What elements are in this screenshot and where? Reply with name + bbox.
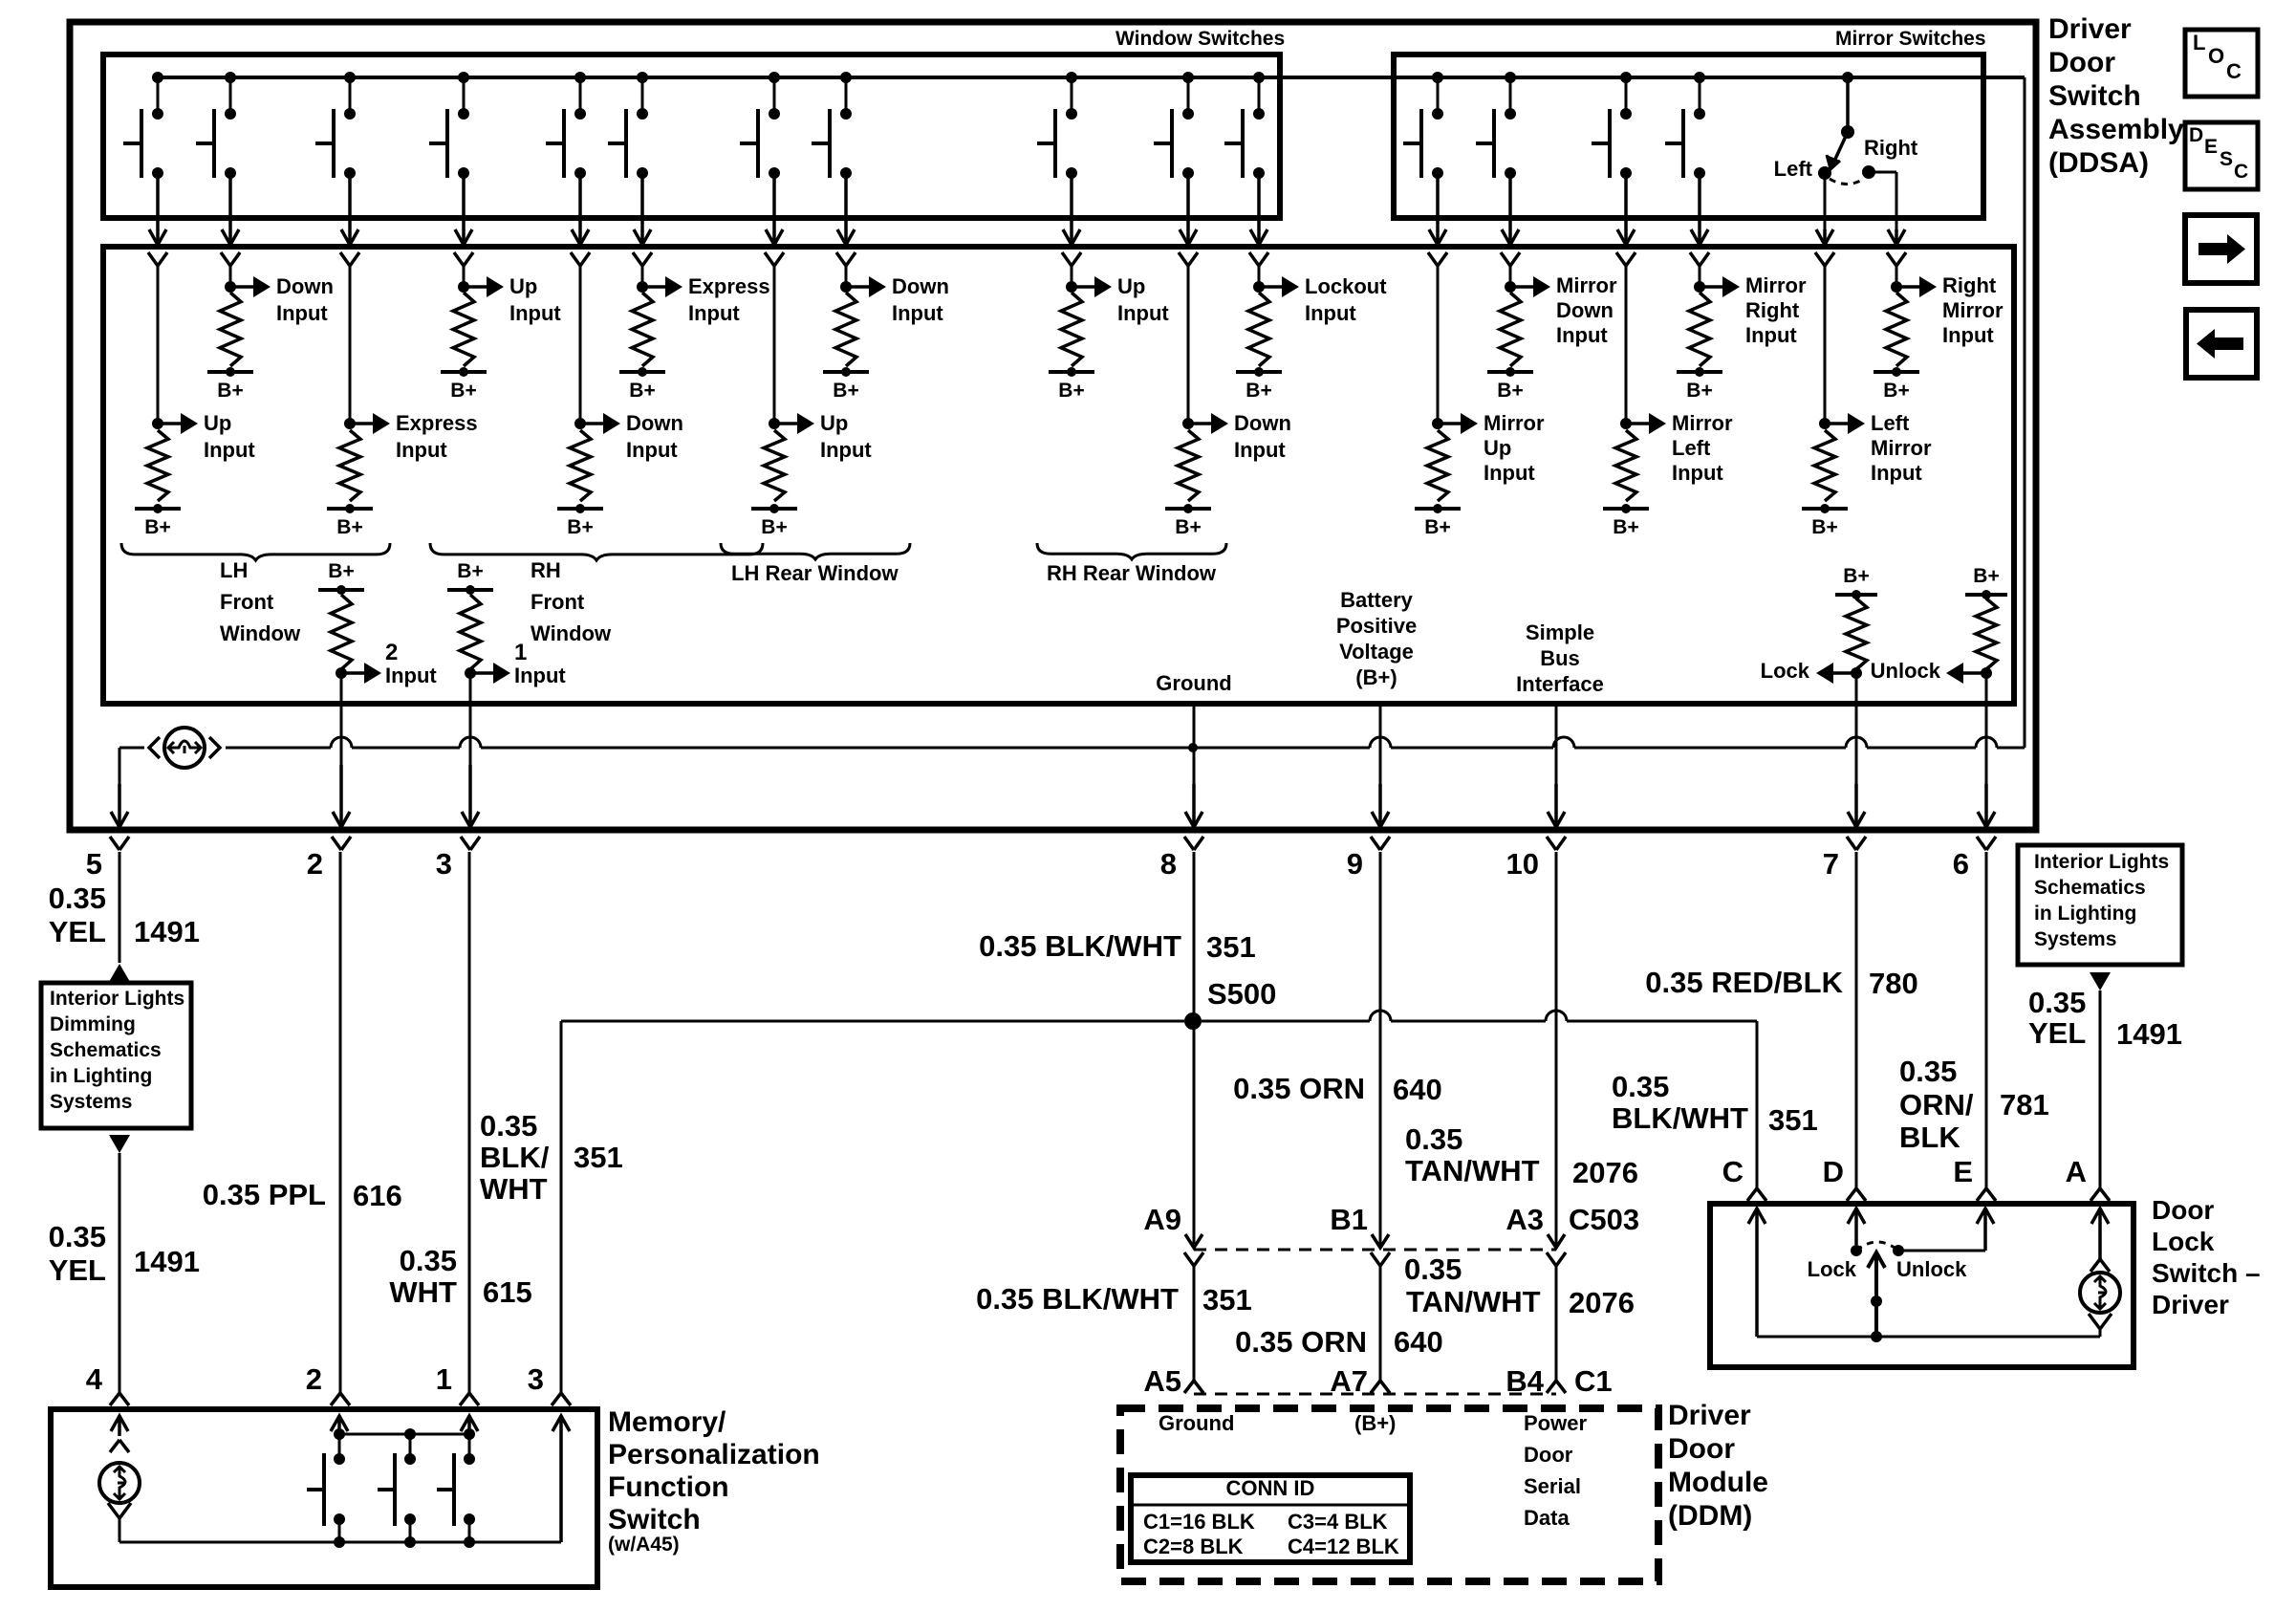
wire: pin 7 to door lock switch D (circuit 780) xyxy=(1645,852,1917,1201)
wire: illumination feed across assembly (y=782) xyxy=(119,737,2025,826)
input arrow: Express Input xyxy=(354,411,478,462)
svg-text:Switch: Switch xyxy=(2048,80,2141,112)
svg-text:10: 10 xyxy=(1506,847,1539,881)
svg-text:C1=16 BLK: C1=16 BLK xyxy=(1143,1510,1255,1534)
svg-text:Input: Input xyxy=(1942,323,1994,347)
svg-text:Up: Up xyxy=(509,274,537,298)
brace: LH Rear Window group xyxy=(721,543,910,585)
svg-text:6: 6 xyxy=(1953,847,1969,881)
svg-text:Mirror: Mirror xyxy=(1871,436,1932,460)
resistor R7 xyxy=(764,430,785,501)
resistor R18 xyxy=(331,595,352,669)
svg-text:Serial: Serial xyxy=(1524,1474,1581,1498)
svg-text:C: C xyxy=(1722,1155,1744,1188)
svg-text:Mirror: Mirror xyxy=(1942,298,2004,322)
connector designator C1 xyxy=(1574,1364,1613,1398)
wire: switch S9 output to resistor network xyxy=(1062,173,1081,266)
resistor R12 xyxy=(1427,430,1448,501)
pushbutton switch S4 RH front window up xyxy=(429,72,469,179)
box: Interior Lights Dimming Schematics in Lighting Systems xyxy=(41,983,191,1128)
svg-text:B4: B4 xyxy=(1505,1364,1544,1398)
connector pin A9 xyxy=(1143,1203,1203,1266)
svg-text:B+: B+ xyxy=(833,380,858,402)
wire: column x=1580 to input node xyxy=(1505,266,1516,293)
B+ terminal of R2 xyxy=(207,367,253,402)
component box: Door Lock Switch - Driver xyxy=(1710,1204,2134,1367)
wire: switch S8 output to resistor network xyxy=(836,173,856,266)
right-arrow navigation box xyxy=(2185,215,2257,283)
svg-text:8: 8 xyxy=(1160,847,1177,881)
wire: column x=1778 to input node xyxy=(1694,266,1705,293)
input arrow: Up Input xyxy=(778,411,872,462)
svg-text:YEL: YEL xyxy=(49,1253,106,1287)
resistor R17 xyxy=(1886,293,1907,366)
wire: lock node to pin 7 xyxy=(1847,673,1866,850)
wire: switch S1 output to resistor network xyxy=(148,173,167,266)
svg-text:Up: Up xyxy=(820,411,848,435)
B+ terminal of R4 xyxy=(441,367,487,402)
wire: R19 node down to pin 3 xyxy=(461,673,480,850)
label: Battery Positive Voltage (B+) port xyxy=(1336,588,1417,689)
pin 10 of DDSA xyxy=(1506,847,1539,881)
svg-text:B+: B+ xyxy=(217,380,243,402)
resistor R6 xyxy=(632,293,653,366)
svg-text:Input: Input xyxy=(820,438,872,462)
wire: column x=1909 to input node xyxy=(1819,266,1830,429)
pushbutton switch S18 memory 2 xyxy=(378,1434,416,1542)
svg-text:B+: B+ xyxy=(1811,516,1837,538)
wire: column x=165 to input node xyxy=(152,266,163,429)
input arrow: Down Input xyxy=(584,411,683,462)
wire: pin 9 battery feed to DDM B1 (circuit 640) xyxy=(1233,852,1442,1248)
svg-text:Input: Input xyxy=(1556,323,1608,347)
wire: pin 6 to door lock switch E (circuit 781) xyxy=(1899,852,2049,1201)
svg-text:B+: B+ xyxy=(457,560,483,582)
svg-text:B+: B+ xyxy=(1175,516,1201,538)
svg-text:Input: Input xyxy=(688,301,740,325)
svg-text:351: 351 xyxy=(574,1141,623,1174)
svg-text:2076: 2076 xyxy=(1572,1156,1638,1189)
connector pin B1 xyxy=(1330,1203,1390,1266)
svg-text:Mirror: Mirror xyxy=(1556,273,1617,297)
svg-text:Window: Window xyxy=(220,621,301,645)
svg-text:351: 351 xyxy=(1202,1283,1252,1317)
svg-text:Front: Front xyxy=(531,590,585,614)
label: Mirror Switches xyxy=(1835,28,1986,50)
svg-text:in Lighting: in Lighting xyxy=(2034,903,2136,925)
wire: switch S14 output to resistor network xyxy=(1616,173,1635,266)
svg-text:ORN/: ORN/ xyxy=(1899,1088,1974,1121)
wire: column x=241 to input node xyxy=(225,266,236,293)
box: Interior Lights Schematics in Lighting Systems xyxy=(2018,845,2182,965)
svg-text:Memory/: Memory/ xyxy=(608,1406,726,1438)
svg-text:Ground: Ground xyxy=(1159,1411,1234,1435)
wire: switch S11 output to resistor network xyxy=(1249,173,1268,266)
resistor R4 xyxy=(453,293,474,366)
svg-text:Lock: Lock xyxy=(1808,1257,1857,1281)
svg-text:1491: 1491 xyxy=(134,915,200,948)
wire: memory switch pin 3 entry down to common bus xyxy=(552,1416,570,1542)
svg-text:Dimming: Dimming xyxy=(50,1013,136,1035)
svg-text:615: 615 xyxy=(483,1275,532,1309)
memory switch pin 2 xyxy=(306,1362,322,1396)
svg-text:0.35: 0.35 xyxy=(1404,1252,1462,1286)
svg-text:0.35 ORN: 0.35 ORN xyxy=(1233,1072,1365,1105)
svg-text:(B+): (B+) xyxy=(1354,1411,1396,1435)
svg-text:0.35: 0.35 xyxy=(1405,1122,1462,1156)
wire: pin 5 circuit 1491 to interior lights dimming xyxy=(49,852,200,963)
door lock switch pin A label xyxy=(2066,1155,2087,1188)
svg-text:Driver: Driver xyxy=(2152,1290,2229,1319)
svg-text:B+: B+ xyxy=(567,516,593,538)
svg-text:Data: Data xyxy=(1524,1506,1570,1530)
svg-text:Down: Down xyxy=(626,411,683,435)
svg-text:B+: B+ xyxy=(450,380,476,402)
svg-text:Down: Down xyxy=(1556,298,1614,322)
node: ground junction on illumination line xyxy=(1188,743,1198,752)
pushbutton switch S14 mirror left xyxy=(1592,72,1632,179)
pushbutton switch S11 window lockout xyxy=(1224,72,1265,179)
label: Driver Door Module (DDM) xyxy=(1668,1400,1768,1532)
svg-text:A3: A3 xyxy=(1505,1203,1544,1236)
wire: switch S6 output to resistor network xyxy=(633,173,652,266)
svg-text:0.35: 0.35 xyxy=(1612,1070,1669,1103)
svg-text:0.35 BLK/WHT: 0.35 BLK/WHT xyxy=(979,929,1181,963)
svg-text:Positive: Positive xyxy=(1336,614,1417,638)
svg-text:0.35 BLK/WHT: 0.35 BLK/WHT xyxy=(976,1282,1179,1316)
svg-text:2: 2 xyxy=(307,847,323,881)
CONN ID table xyxy=(1131,1475,1410,1562)
svg-text:Systems: Systems xyxy=(2034,928,2116,950)
wire: column x=1504 to input node xyxy=(1432,266,1443,429)
B+ terminal of R12 xyxy=(1415,504,1461,538)
svg-text:S: S xyxy=(2220,148,2233,170)
svg-text:780: 780 xyxy=(1869,967,1918,1000)
svg-text:RH: RH xyxy=(531,558,561,582)
svg-text:Up: Up xyxy=(204,411,231,435)
door lock switch pin C label xyxy=(1722,1155,1744,1188)
pushbutton switch S13 mirror down xyxy=(1476,72,1516,179)
pin 6 of DDSA xyxy=(1953,847,1969,881)
brace: RH Rear Window group xyxy=(1037,543,1226,585)
svg-text:in Lighting: in Lighting xyxy=(50,1065,152,1087)
wire: S500 ground branch (y=1070) xyxy=(561,1011,1757,1021)
svg-text:640: 640 xyxy=(1394,1325,1443,1359)
svg-text:C: C xyxy=(2226,59,2242,83)
wire: R18 node down to pin 2 xyxy=(332,673,351,850)
B+ terminal of R3 xyxy=(327,504,373,538)
svg-text:3: 3 xyxy=(528,1362,544,1396)
wire: DLS pin D entry to lock contact xyxy=(1848,1208,1865,1256)
svg-text:Window Switches: Window Switches xyxy=(1116,28,1285,50)
svg-text:Left: Left xyxy=(1774,157,1813,181)
svg-text:Front: Front xyxy=(220,590,274,614)
wire: column x=485 to input node xyxy=(458,266,469,293)
svg-text:B+: B+ xyxy=(1973,565,1999,587)
DDM port label (B+) xyxy=(1354,1411,1396,1435)
input arrow: Lock xyxy=(1761,659,1862,684)
wire: selector right contact to resistor network xyxy=(1887,172,1906,266)
resistor R21 unlock xyxy=(1976,599,1997,669)
resistor R20 lock xyxy=(1846,599,1867,669)
wire: switch S10 output to resistor network xyxy=(1179,173,1198,266)
svg-text:0.35 PPL: 0.35 PPL xyxy=(203,1178,326,1211)
svg-text:351: 351 xyxy=(1768,1103,1818,1137)
svg-text:B+: B+ xyxy=(761,516,787,538)
wire: memory switch internal bottom bus xyxy=(119,1536,561,1548)
label: Memory/Personalization Function Switch (w/A45) xyxy=(608,1406,820,1556)
svg-text:351: 351 xyxy=(1206,930,1256,964)
svg-text:Input: Input xyxy=(385,664,437,687)
svg-text:Input: Input xyxy=(626,438,678,462)
svg-text:B+: B+ xyxy=(629,380,655,402)
svg-text:Input: Input xyxy=(1305,301,1356,325)
svg-text:Unlock: Unlock xyxy=(1896,1257,1967,1281)
svg-text:A: A xyxy=(2066,1155,2087,1188)
svg-text:Input: Input xyxy=(204,438,255,462)
svg-text:Door: Door xyxy=(1524,1443,1573,1467)
svg-text:Input: Input xyxy=(1871,461,1922,485)
svg-text:B+: B+ xyxy=(1058,380,1084,402)
svg-text:1: 1 xyxy=(436,1362,452,1396)
B+ terminal of R13 xyxy=(1487,367,1533,402)
svg-text:Mirror: Mirror xyxy=(1672,411,1733,435)
svg-text:B+: B+ xyxy=(328,560,354,582)
svg-text:0.35 ORN: 0.35 ORN xyxy=(1235,1325,1367,1359)
svg-text:D: D xyxy=(1823,1155,1844,1188)
svg-text:0.35: 0.35 xyxy=(49,1220,106,1253)
svg-text:0.35: 0.35 xyxy=(1899,1055,1957,1088)
svg-text:Down: Down xyxy=(892,274,949,298)
svg-text:Personalization: Personalization xyxy=(608,1439,820,1470)
svg-text:Up: Up xyxy=(1117,274,1145,298)
svg-text:Mirror: Mirror xyxy=(1484,411,1545,435)
wire: column x=885 to input node xyxy=(840,266,852,293)
resistor R9 xyxy=(1061,293,1082,366)
label: Door Lock Switch - Driver xyxy=(2152,1195,2261,1319)
pushbutton switch S15 mirror right xyxy=(1665,72,1705,179)
svg-text:B+: B+ xyxy=(1424,516,1450,538)
resistor R10 xyxy=(1178,430,1199,501)
resistor R5 xyxy=(570,430,591,501)
wire: DLS pin E entry to unlock contact xyxy=(1893,1208,1994,1256)
resistor R1 xyxy=(147,430,168,501)
wire: A9 to A5 segment (circuit 351) xyxy=(976,1266,1252,1393)
wire: switch S15 output to resistor network xyxy=(1690,173,1709,266)
svg-text:Express: Express xyxy=(396,411,478,435)
input arrow: Left Mirror Input xyxy=(1829,411,1932,485)
B+ terminal of R8 xyxy=(823,367,869,402)
svg-text:B+: B+ xyxy=(1883,380,1909,402)
input arrow: Mirror Up Input xyxy=(1441,411,1545,485)
B+ terminal of R7 xyxy=(751,504,797,538)
svg-text:(B+): (B+) xyxy=(1355,665,1397,689)
input arrow: Up Input xyxy=(1075,274,1169,325)
wire: pin 8 ground to DDM A9 xyxy=(979,852,1256,1248)
svg-text:(DDSA): (DDSA) xyxy=(2048,147,2149,179)
resistor R11 xyxy=(1248,293,1269,366)
svg-text:E: E xyxy=(2204,136,2218,158)
B+ terminal of R20 (lock) xyxy=(1835,565,1877,599)
svg-text:E: E xyxy=(1953,1155,1973,1188)
svg-text:Lock: Lock xyxy=(1761,659,1810,683)
box: Window Switches xyxy=(103,54,1280,218)
off-page arrow to dimming schematics xyxy=(109,964,130,982)
box: Mirror Switches xyxy=(1394,54,1983,218)
wire: switch supply bus (top) xyxy=(158,77,2025,748)
svg-text:0.35 RED/BLK: 0.35 RED/BLK xyxy=(1645,966,1843,999)
svg-text:C2=8 BLK: C2=8 BLK xyxy=(1143,1535,1244,1558)
wire: memory switch pin 1 entry xyxy=(461,1416,478,1434)
wire: column x=672 to input node xyxy=(637,266,648,293)
svg-text:Lock: Lock xyxy=(2152,1227,2215,1256)
pushbutton switch S3 LH front window express xyxy=(315,72,356,179)
pushbutton switch S7 LH rear window up xyxy=(740,72,780,179)
svg-text:Driver: Driver xyxy=(2048,13,2132,45)
label: Simple Bus Interface port xyxy=(1516,620,1604,696)
input arrow: Unlock xyxy=(1871,659,1992,684)
wire: DLS internal common bus xyxy=(1757,1331,2100,1342)
memory switch pin 4 xyxy=(86,1362,103,1396)
off-page arrow from dimming schematics xyxy=(109,1135,130,1153)
door lock switch pin D label xyxy=(1823,1155,1844,1188)
input arrow: Down Input xyxy=(234,274,334,325)
svg-text:Voltage: Voltage xyxy=(1339,640,1414,664)
pushbutton switch S17 memory 1 xyxy=(307,1434,345,1542)
memory switch pin 1 xyxy=(436,1362,452,1396)
svg-text:2: 2 xyxy=(385,640,398,665)
module box: Driver Door Module (DDM) xyxy=(1120,1408,1658,1581)
wire: serial bus port to pin 10 xyxy=(1547,704,1566,850)
svg-text:Mirror Switches: Mirror Switches xyxy=(1835,28,1986,50)
wire: DLS pin C entry down to common xyxy=(1748,1208,1765,1337)
wire: switch S2 output to resistor network xyxy=(221,173,240,266)
svg-text:Input: Input xyxy=(514,664,566,687)
svg-text:781: 781 xyxy=(2000,1088,2049,1121)
B+ terminal of R6 xyxy=(619,367,665,402)
svg-text:Ground: Ground xyxy=(1156,671,1231,695)
svg-text:Left: Left xyxy=(1672,436,1711,460)
input arrow: Down Input xyxy=(850,274,949,325)
svg-text:Simple: Simple xyxy=(1526,620,1594,644)
wire: memory switch internal top bus xyxy=(334,1428,475,1440)
pushbutton switch S19 memory 3 xyxy=(437,1434,475,1542)
svg-text:Door: Door xyxy=(2152,1195,2214,1225)
wire: switch S13 output to resistor network xyxy=(1501,173,1520,266)
svg-text:Input: Input xyxy=(509,301,561,325)
wire: column x=1984 to input node xyxy=(1891,266,1902,293)
wire: column x=1243 to input node xyxy=(1182,266,1194,429)
svg-text:Schematics: Schematics xyxy=(50,1039,162,1061)
svg-text:Interior Lights: Interior Lights xyxy=(2034,851,2169,873)
svg-text:616: 616 xyxy=(353,1179,402,1212)
resistor R16 xyxy=(1814,430,1835,501)
svg-text:Module: Module xyxy=(1668,1467,1768,1498)
svg-text:Right: Right xyxy=(1942,273,1997,297)
svg-text:Interior Lights: Interior Lights xyxy=(50,988,184,1010)
svg-text:WHT: WHT xyxy=(480,1172,548,1206)
svg-text:YEL: YEL xyxy=(2028,1016,2086,1050)
svg-text:(w/A45): (w/A45) xyxy=(608,1534,680,1556)
pushbutton switch S9 RH rear window up xyxy=(1037,72,1077,179)
svg-text:7: 7 xyxy=(1823,847,1839,881)
B+ terminal of R11 xyxy=(1236,367,1282,402)
resistor R19 xyxy=(460,595,481,669)
wire: switch S4 output to resistor network xyxy=(454,173,473,266)
B+ terminal of R17 xyxy=(1874,367,1919,402)
svg-text:Schematics: Schematics xyxy=(2034,877,2146,899)
wire: memory switch pin 4 entry xyxy=(111,1416,128,1436)
svg-text:Systems: Systems xyxy=(50,1091,132,1113)
pin 2 of DDSA xyxy=(307,847,323,881)
wire: pin 2 circuit 616 to memory switch pin 2 xyxy=(203,852,402,1405)
pin 7 of DDSA xyxy=(1823,847,1839,881)
svg-text:TAN/WHT: TAN/WHT xyxy=(1406,1285,1541,1318)
input arrow: Lockout Input xyxy=(1263,274,1387,325)
svg-text:0.35: 0.35 xyxy=(480,1109,537,1143)
pushbutton switch S5 RH front window down xyxy=(546,72,586,179)
svg-text:C1: C1 xyxy=(1574,1364,1613,1398)
svg-text:4: 4 xyxy=(86,1362,103,1396)
svg-text:C503: C503 xyxy=(1569,1203,1639,1236)
wire: column x=810 to input node xyxy=(769,266,780,429)
svg-text:Window: Window xyxy=(531,621,612,645)
svg-text:BLK: BLK xyxy=(1899,1121,1960,1154)
pushbutton switch S12 mirror up xyxy=(1403,72,1443,179)
wire: unlock node to pin 6 xyxy=(1977,673,1996,850)
brace: LH Front Window group xyxy=(121,543,390,645)
resistor R8 xyxy=(835,293,856,366)
svg-text:Input: Input xyxy=(276,301,328,325)
svg-text:Door: Door xyxy=(1668,1433,1735,1465)
lamp L3: door lock switch illumination xyxy=(2080,1259,2120,1337)
pushbutton switch S10 RH rear window down xyxy=(1154,72,1194,179)
svg-text:B+: B+ xyxy=(336,516,362,538)
svg-text:Bus: Bus xyxy=(1540,646,1580,670)
B+ terminal of R10 xyxy=(1165,504,1211,538)
input arrow: Mirror Left Input xyxy=(1630,411,1733,485)
svg-text:Input: Input xyxy=(1672,461,1723,485)
input arrow: Right Mirror Input xyxy=(1900,273,2004,347)
svg-text:LH: LH xyxy=(220,558,248,582)
pin 3 of DDSA xyxy=(436,847,452,881)
svg-text:A5: A5 xyxy=(1143,1364,1181,1398)
svg-text:C4=12 BLK: C4=12 BLK xyxy=(1288,1535,1399,1558)
wire: dimming feed down to memory switch pin 4 xyxy=(49,1153,200,1405)
svg-text:(DDM): (DDM) xyxy=(1668,1500,1752,1532)
B+ terminal of R16 xyxy=(1802,504,1848,538)
svg-text:L: L xyxy=(2193,31,2205,54)
left-arrow navigation box xyxy=(2186,310,2257,378)
svg-text:Input: Input xyxy=(396,438,447,462)
selector switch S20 lock/unlock xyxy=(1808,1242,1967,1337)
svg-text:Up: Up xyxy=(1484,436,1511,460)
connector designator C503 xyxy=(1569,1203,1639,1236)
svg-text:WHT: WHT xyxy=(389,1275,457,1309)
svg-text:B+: B+ xyxy=(1245,380,1271,402)
svg-text:B+: B+ xyxy=(144,516,170,538)
svg-text:Down: Down xyxy=(276,274,334,298)
svg-text:TAN/WHT: TAN/WHT xyxy=(1405,1154,1540,1187)
B+ terminal of R21 (unlock) xyxy=(1965,565,2007,599)
svg-text:640: 640 xyxy=(1393,1073,1442,1106)
wire: memory switch pin 2 entry xyxy=(331,1416,348,1434)
svg-text:Assembly: Assembly xyxy=(2048,114,2184,145)
svg-text:Function: Function xyxy=(608,1471,729,1503)
pushbutton switch S8 LH rear window down xyxy=(812,72,852,179)
svg-text:1491: 1491 xyxy=(2116,1017,2182,1051)
pin 8 of DDSA xyxy=(1160,847,1177,881)
